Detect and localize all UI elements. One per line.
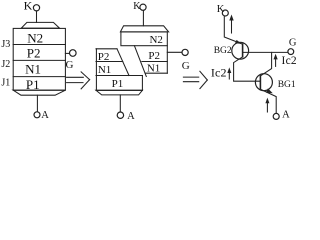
layer P1 box right edge	[141, 76, 143, 91]
terminal K circle (left structure)	[33, 5, 39, 11]
wire gate (middle)	[167, 51, 182, 53]
left half outline: left edge	[95, 49, 97, 91]
svg-text:J2: J2	[1, 59, 10, 70]
transistor BG1	[255, 52, 276, 113]
svg-text:P2: P2	[27, 46, 41, 61]
svg-text:G: G	[182, 60, 190, 72]
terminal A circle (circuit)	[273, 113, 279, 119]
split diagonal (left)	[117, 49, 129, 76]
svg-text:N1: N1	[25, 62, 41, 77]
svg-text:K: K	[24, 0, 33, 13]
right half N1 bottom	[145, 72, 167, 74]
BG2 collector lead	[234, 57, 261, 81]
split diagonal (right)	[134, 46, 146, 77]
wire gate (left)	[65, 52, 69, 54]
svg-text:N1: N1	[147, 62, 160, 74]
PNPN stack outline (left structure)	[13, 28, 65, 90]
svg-text:P2: P2	[148, 50, 160, 62]
terminal A circle (middle structure)	[117, 112, 123, 118]
svg-text:N2: N2	[149, 34, 162, 46]
junction J2 line	[13, 59, 65, 61]
svg-text:P1: P1	[112, 78, 124, 90]
svg-text:BG2: BG2	[214, 46, 232, 56]
terminal G circle (middle structure)	[182, 49, 188, 55]
BG2 emitter arrowhead (PNP)	[235, 40, 241, 44]
anode metal slab (left structure)	[13, 90, 65, 95]
terminal A circle (left structure)	[34, 112, 40, 118]
terminal K circle (circuit)	[222, 10, 228, 16]
terminal G circle (left structure)	[70, 50, 77, 57]
Ic2 current arrow (left)	[227, 67, 231, 79]
left half N1 bottom / P1 top	[96, 75, 142, 77]
transistor BG2	[232, 40, 261, 81]
cathode metal slab (middle structure)	[120, 26, 168, 32]
equivalence arrow 2	[183, 71, 207, 88]
wire anode slab to A (middle)	[119, 95, 121, 112]
BG1 emitter lead	[260, 89, 276, 113]
junction J1 line	[13, 76, 65, 78]
right half P2/N1 right edge	[166, 46, 168, 73]
BG1 emitter arrowhead (NPN)	[266, 88, 273, 93]
BG1 collector lead	[260, 52, 271, 76]
svg-text:G: G	[289, 37, 297, 48]
svg-text:A: A	[282, 110, 290, 121]
anode metal slab (middle structure)	[96, 90, 142, 95]
left half P2/N1 divider	[96, 61, 123, 63]
junction J3 line	[13, 44, 65, 46]
cathode metal slab (left structure)	[21, 22, 59, 28]
terminal G circle (circuit)	[288, 49, 294, 55]
equivalence arrow 1	[67, 72, 90, 89]
wire K to cathode slab (middle)	[142, 10, 144, 25]
svg-text:BG1: BG1	[278, 80, 296, 90]
svg-text:Ic2: Ic2	[211, 65, 227, 79]
right half P2/N1 divider	[142, 61, 167, 63]
terminal K circle (middle structure)	[140, 4, 146, 10]
svg-text:N2: N2	[27, 31, 43, 46]
svg-text:N1: N1	[98, 64, 111, 76]
svg-text:A: A	[127, 111, 135, 121]
cathode current arrow	[229, 15, 233, 34]
layer P1 box bottom	[96, 89, 142, 91]
svg-text:K: K	[217, 4, 225, 15]
svg-text:A: A	[41, 110, 49, 121]
BG2 base wire to G	[243, 51, 288, 53]
svg-text:P2: P2	[98, 51, 110, 63]
wire K to cathode slab (left)	[36, 11, 38, 22]
svg-text:G: G	[66, 59, 74, 71]
svg-text:J3: J3	[1, 39, 10, 50]
anode current arrow	[265, 98, 269, 112]
Ic2 current arrow (right)	[274, 54, 278, 67]
svg-text:Ic2: Ic2	[282, 55, 297, 67]
svg-text:J1: J1	[1, 78, 10, 89]
wire anode slab to A (left)	[36, 95, 38, 112]
layer N2 box (middle right half)	[121, 32, 167, 46]
left half P2 top	[96, 48, 117, 50]
wire K to BG2 emitter	[224, 16, 242, 44]
